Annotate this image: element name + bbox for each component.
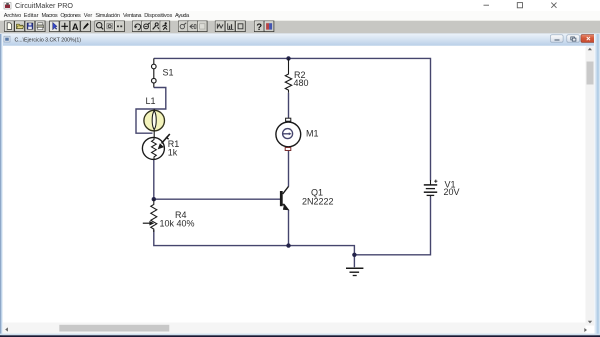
svg-text:Archivo: Archivo: [4, 13, 21, 19]
svg-text:CircuitMaker PRO: CircuitMaker PRO: [15, 3, 74, 10]
svg-text:Ayuda: Ayuda: [175, 13, 190, 19]
svg-text:10k 40%: 10k 40%: [160, 218, 195, 228]
svg-text:Dispositivos: Dispositivos: [144, 13, 172, 19]
svg-text:1k: 1k: [168, 147, 178, 157]
svg-text:Ver: Ver: [84, 13, 93, 19]
svg-text:S1: S1: [163, 67, 174, 77]
svg-text:Editar: Editar: [24, 13, 39, 19]
svg-text:C...\Ejercicio 3.CKT 200%(1): C...\Ejercicio 3.CKT 200%(1): [15, 37, 82, 43]
svg-text:20V: 20V: [444, 187, 460, 197]
svg-text:?: ?: [256, 21, 262, 32]
svg-text:M1: M1: [306, 129, 319, 139]
svg-text:480: 480: [294, 78, 309, 88]
svg-text:Opciones: Opciones: [60, 13, 81, 19]
svg-text:Macros: Macros: [42, 13, 58, 19]
svg-text:L1: L1: [146, 96, 156, 106]
svg-text:Simulación: Simulación: [95, 13, 120, 19]
svg-text:2N2222: 2N2222: [302, 196, 334, 206]
svg-text:A: A: [72, 22, 79, 32]
svg-text:Ventana: Ventana: [123, 13, 142, 19]
